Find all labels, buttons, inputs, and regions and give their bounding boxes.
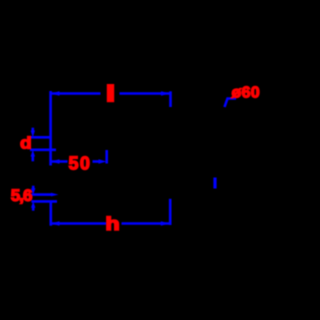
- svg-text:50: 50: [69, 154, 92, 174]
- arrow stem 5,6 upper: [32, 186, 35, 191]
- arrowhead 50 right: [99, 159, 107, 164]
- arrowhead h left: [51, 221, 60, 226]
- dimension line 50, right segment: [93, 160, 101, 163]
- dimension line l (top), left segment: [51, 92, 101, 95]
- arrowhead 5,6 extension tip (points right): [51, 193, 59, 197]
- arrowhead l right: [161, 91, 170, 96]
- dimension line 50, left segment: [51, 160, 68, 163]
- extension line left (x=50.6): [49, 91, 52, 166]
- extension line 5,6 lower (y=201.4): [31, 200, 57, 203]
- extension line h right (x=170.2): [169, 199, 172, 225]
- extension line h left / connector (x=50.8): [49, 201, 52, 226]
- svg-text:h: h: [106, 214, 120, 234]
- svg-text:ø60: ø60: [232, 84, 260, 101]
- arrowhead d lower (points up): [31, 150, 35, 157]
- extension line d lower (y=149.8): [30, 149, 56, 152]
- arrow stem d lower: [31, 155, 34, 162]
- arrow stem d upper: [31, 128, 34, 133]
- arrowhead l left: [51, 91, 60, 96]
- leader line for ø60: [225, 99, 237, 108]
- arrowhead d upper (points down): [31, 131, 35, 138]
- label l (red bar): [107, 84, 114, 102]
- dimension line h, right segment: [122, 222, 170, 225]
- dimension line l (top), right segment: [120, 92, 170, 95]
- dimension line h, left segment: [51, 222, 106, 225]
- extension line d upper (y=137.3): [31, 136, 51, 139]
- arrowhead 5,6 lower (points up): [31, 201, 35, 207]
- arrowhead h right: [161, 221, 170, 226]
- arrowhead 5,6 upper (points down): [31, 188, 35, 194]
- svg-text:d: d: [20, 133, 32, 152]
- extension line right top (x=170.5): [169, 91, 172, 107]
- arrow stem 5,6 lower: [32, 206, 35, 211]
- arrowhead 50 left: [51, 159, 60, 164]
- extension line 5,6 upper (y=194.6): [31, 193, 52, 196]
- centerline dash (x=215): [213, 178, 216, 189]
- extension line 50 right (x=106.7): [105, 150, 108, 164]
- svg-text:5,6: 5,6: [11, 186, 32, 205]
